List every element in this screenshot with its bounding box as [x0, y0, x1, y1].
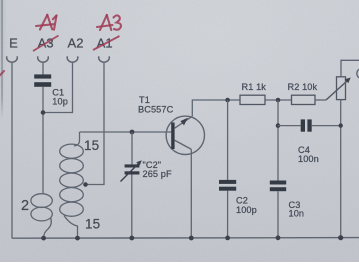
wire A2 down and left to node below C1 — [43, 63, 72, 113]
red strikethrough on printed A3 — [33, 36, 59, 52]
terminal A3 (relabelled A1) — [38, 36, 54, 63]
svg-text:10p: 10p — [52, 97, 68, 107]
wire trimmer to ground rail — [131, 175, 133, 239]
terminal A1 (relabelled A3) — [97, 36, 113, 63]
junction C2 / ground — [225, 236, 230, 241]
label "C2" 265 pF — [143, 160, 172, 179]
capacitor C3 10n — [270, 181, 286, 238]
svg-text:R2 10k: R2 10k — [288, 82, 318, 92]
wire A1 terminal down to coil tap — [86, 63, 105, 185]
svg-text:10n: 10n — [289, 209, 305, 219]
inductor L1 (2 turns) — [31, 194, 52, 238]
junction base line / trimmer branch — [130, 130, 135, 135]
svg-text:100n: 100n — [298, 154, 319, 164]
ground rail — [12, 237, 359, 240]
potentiometer P1 — [326, 77, 351, 100]
resistor R2 — [292, 95, 316, 104]
label C3 10n — [289, 200, 305, 219]
capacitor C1 — [34, 74, 51, 86]
transistor T1 — [166, 116, 204, 154]
wire C4 to pot bottom line — [312, 125, 341, 127]
capacitor C2 100p — [219, 100, 236, 238]
svg-text:265 pF: 265 pF — [143, 169, 172, 179]
junction pot / ground — [338, 235, 343, 240]
terminal E — [7, 36, 18, 63]
svg-text:100p: 100p — [236, 205, 257, 215]
svg-text:15: 15 — [85, 217, 100, 232]
red mark at left edge — [0, 70, 5, 77]
junction collector / ground — [189, 236, 194, 241]
junction L2 / ground — [75, 236, 80, 241]
wire junction to C4 — [278, 125, 301, 127]
svg-text:R1 1k: R1 1k — [242, 82, 267, 92]
wire supply node down to C3 — [277, 100, 279, 181]
svg-text:2: 2 — [21, 198, 29, 214]
label T1 BC557C — [138, 95, 174, 115]
wire pot top to edge terminal — [341, 60, 359, 77]
wire coil top to transistor base — [80, 131, 172, 133]
svg-text:BC557C: BC557C — [138, 105, 174, 115]
wire R2 to potentiometer wiper — [315, 99, 326, 101]
svg-text:A2: A2 — [68, 36, 84, 51]
wire A3 terminal down to C1 — [42, 63, 44, 75]
red handwritten annotation A3 — [97, 15, 121, 30]
svg-text:15: 15 — [84, 138, 99, 153]
junction supply rail / C2 100p — [225, 98, 230, 103]
wire C1 to coil L1 — [42, 87, 44, 193]
trimmer capacitor "C2" 265 pF — [121, 160, 142, 181]
junction supply rail / C3 C4 branch — [276, 98, 281, 103]
junction trimmer / ground — [129, 236, 134, 241]
junction coil tap — [83, 182, 88, 187]
junction C4 / pot line — [339, 123, 343, 127]
wire junction down to trimmer C2 — [131, 132, 133, 164]
resistor R1 — [240, 95, 265, 104]
wire emitter up to supply rail — [192, 100, 240, 116]
wire pot bottom down to ground rail — [340, 100, 342, 238]
capacitor C4 100n — [301, 119, 312, 131]
label C4 100n — [298, 145, 319, 164]
label C2 100p — [236, 196, 257, 215]
junction C3 / ground — [276, 235, 281, 240]
red strikethrough on printed A1 — [93, 36, 120, 50]
terminal (cut off at right edge) — [357, 68, 359, 78]
terminal A2 — [67, 36, 83, 63]
label C1 10p — [52, 88, 68, 107]
wire E down to ground rail — [11, 63, 13, 238]
paper edge line at left — [1, 0, 3, 119]
junction C1 / A2 / L1 — [41, 110, 46, 115]
junction C3 / C4 — [276, 123, 281, 128]
red handwritten annotation A1 — [36, 15, 57, 30]
wire R1 to R2 — [265, 99, 292, 101]
inductor L2 (15 + 15 turns, tapped) — [60, 132, 84, 238]
wire collector down to ground rail — [190, 149, 192, 238]
svg-text:E: E — [9, 36, 18, 51]
svg-text:T1: T1 — [139, 95, 150, 105]
junction L1 / ground — [41, 236, 46, 241]
